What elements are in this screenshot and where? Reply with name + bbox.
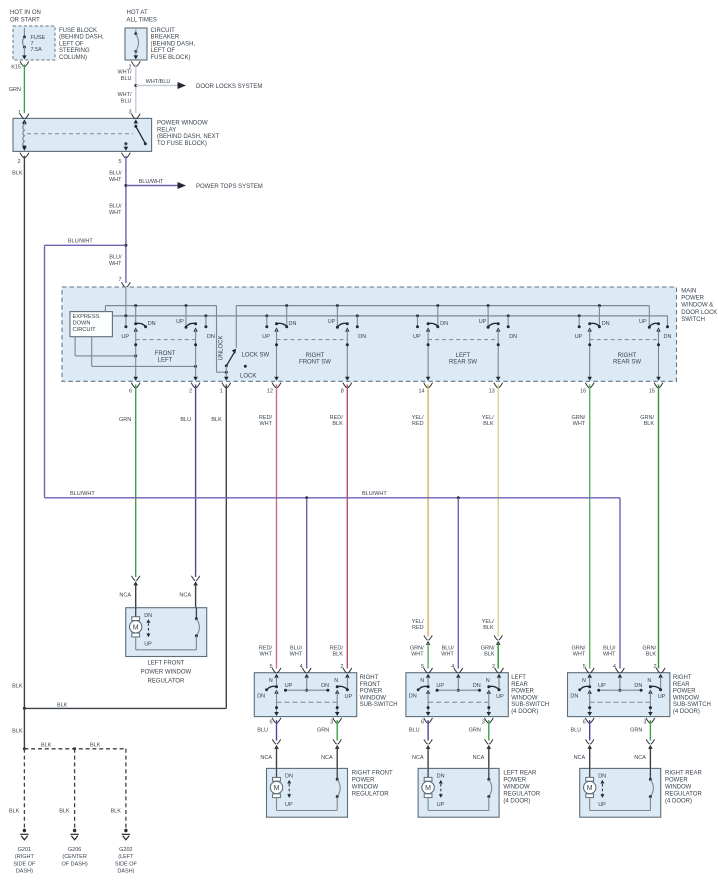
svg-text:5: 5 (421, 664, 424, 670)
svg-text:14: 14 (418, 389, 424, 395)
svg-text:3: 3 (128, 110, 131, 116)
svg-text:4: 4 (613, 664, 616, 670)
svg-text:BLU/: BLU/ (290, 645, 303, 651)
svg-text:DOOR LOCKS SYSTEM: DOOR LOCKS SYSTEM (196, 84, 262, 90)
svg-text:BLK: BLK (90, 742, 101, 748)
svg-text:DN: DN (358, 334, 366, 340)
svg-text:K15: K15 (11, 65, 21, 71)
svg-text:UP: UP (658, 694, 666, 700)
svg-text:ALL TIMES: ALL TIMES (127, 18, 157, 24)
svg-text:GRN: GRN (9, 87, 21, 93)
svg-text:1: 1 (220, 389, 223, 395)
svg-text:DN: DN (144, 613, 152, 619)
svg-text:DN: DN (664, 334, 672, 340)
svg-text:5: 5 (269, 664, 272, 670)
svg-text:NCA: NCA (119, 593, 131, 599)
svg-text:POWER: POWER (681, 296, 704, 302)
svg-text:BLU: BLU (180, 417, 191, 423)
svg-text:NCA: NCA (179, 593, 191, 599)
svg-text:SUB-SWITCH: SUB-SWITCH (673, 702, 711, 708)
svg-text:3: 3 (482, 719, 485, 725)
svg-text:REGULATOR: REGULATOR (665, 792, 702, 798)
svg-text:6: 6 (421, 719, 424, 725)
svg-text:WHT: WHT (441, 652, 454, 658)
svg-text:UP: UP (437, 802, 445, 808)
svg-text:NCA: NCA (321, 755, 333, 761)
svg-text:WINDOW: WINDOW (360, 695, 387, 701)
svg-text:BLU: BLU (409, 728, 420, 734)
svg-text:NCA: NCA (634, 755, 646, 761)
svg-text:2: 2 (189, 389, 192, 395)
svg-text:RED/: RED/ (330, 415, 344, 421)
svg-text:POWER TOPS SYSTEM: POWER TOPS SYSTEM (196, 184, 263, 190)
svg-text:RIGHT: RIGHT (306, 353, 325, 359)
svg-text:WINDOW: WINDOW (352, 785, 379, 791)
svg-text:GRN: GRN (119, 417, 131, 423)
svg-text:EXPRESS: EXPRESS (73, 314, 100, 320)
svg-text:OF DASH): OF DASH) (61, 861, 87, 867)
svg-text:6: 6 (583, 719, 586, 725)
svg-text:SIDE OF: SIDE OF (13, 861, 36, 867)
svg-text:DN: DN (570, 694, 578, 700)
svg-text:WHT/BLU: WHT/BLU (146, 79, 171, 85)
svg-text:GRN/: GRN/ (410, 645, 424, 651)
svg-text:UNLOCK: UNLOCK (219, 335, 225, 360)
svg-text:RIGHT REAR: RIGHT REAR (665, 771, 703, 777)
svg-text:WINDOW &: WINDOW & (681, 303, 713, 309)
svg-text:N: N (334, 678, 338, 684)
svg-text:BLU/: BLU/ (109, 171, 122, 177)
svg-text:G201: G201 (18, 847, 31, 853)
svg-text:DN: DN (148, 321, 156, 327)
svg-text:5: 5 (583, 664, 586, 670)
svg-text:POWER WINDOW: POWER WINDOW (157, 121, 208, 127)
svg-text:BLU/WHT: BLU/WHT (139, 179, 164, 185)
svg-text:N: N (269, 678, 273, 684)
svg-text:(LEFT: (LEFT (118, 854, 134, 860)
svg-text:BREAKER: BREAKER (151, 35, 180, 41)
svg-text:UP: UP (328, 319, 336, 325)
svg-text:2: 2 (654, 664, 657, 670)
svg-text:WINDOW: WINDOW (511, 695, 538, 701)
svg-text:(BEHIND DASH,: (BEHIND DASH, (59, 35, 104, 41)
svg-text:WINDOW: WINDOW (503, 785, 530, 791)
svg-text:REGULATOR: REGULATOR (148, 679, 185, 685)
svg-text:(4 DOOR): (4 DOOR) (511, 709, 538, 715)
svg-text:YEL/: YEL/ (482, 619, 494, 625)
svg-text:NCA: NCA (473, 755, 485, 761)
svg-text:BLU: BLU (121, 76, 132, 82)
svg-text:16: 16 (580, 389, 586, 395)
svg-text:DN: DN (598, 774, 606, 780)
svg-text:BLU/WHT: BLU/WHT (362, 491, 387, 497)
svg-text:BLK: BLK (483, 625, 494, 631)
svg-text:BLU/WHT: BLU/WHT (70, 491, 95, 497)
svg-text:2: 2 (17, 159, 20, 165)
svg-text:HOT IN ON: HOT IN ON (10, 10, 41, 16)
svg-text:4: 4 (451, 664, 454, 670)
svg-text:TO FUSE BLOCK): TO FUSE BLOCK) (157, 141, 207, 147)
svg-text:RIGHT: RIGHT (618, 353, 637, 359)
svg-text:GRN/: GRN/ (640, 415, 654, 421)
svg-text:GRN/: GRN/ (571, 415, 585, 421)
svg-text:(BEHIND DASH, NEXT: (BEHIND DASH, NEXT (157, 134, 220, 140)
svg-text:POWER: POWER (360, 689, 383, 695)
svg-text:4: 4 (300, 664, 303, 670)
svg-text:RED: RED (412, 421, 424, 427)
svg-text:6: 6 (269, 719, 272, 725)
svg-text:DASH): DASH) (16, 869, 33, 875)
svg-text:6: 6 (129, 389, 132, 395)
svg-text:HOT AT: HOT AT (127, 10, 148, 16)
svg-text:POWER: POWER (352, 778, 375, 784)
svg-text:UP: UP (496, 694, 504, 700)
svg-text:DN: DN (634, 683, 642, 689)
svg-text:WHT/: WHT/ (117, 70, 132, 76)
svg-text:(BEHIND DASH,: (BEHIND DASH, (151, 41, 196, 47)
svg-text:RIGHT: RIGHT (673, 675, 692, 681)
svg-text:BLK: BLK (484, 652, 495, 658)
svg-text:WHT: WHT (109, 210, 122, 216)
svg-text:BLK: BLK (332, 652, 343, 658)
svg-text:BLU/: BLU/ (109, 204, 122, 210)
svg-text:STEERING: STEERING (59, 48, 90, 54)
svg-text:DOWN: DOWN (73, 321, 91, 327)
svg-text:RIGHT: RIGHT (360, 675, 379, 681)
svg-text:WHT: WHT (290, 652, 303, 658)
svg-text:15: 15 (649, 389, 655, 395)
svg-text:NCA: NCA (412, 755, 424, 761)
svg-text:UP: UP (598, 683, 606, 689)
svg-text:GRN: GRN (469, 728, 481, 734)
svg-text:UP: UP (345, 694, 353, 700)
svg-text:2: 2 (340, 664, 343, 670)
svg-text:GRN/: GRN/ (481, 645, 495, 651)
svg-text:WINDOW: WINDOW (673, 695, 700, 701)
svg-text:GRN: GRN (317, 728, 329, 734)
svg-text:REAR: REAR (673, 682, 690, 688)
svg-text:G206: G206 (68, 847, 81, 853)
svg-text:REGULATOR: REGULATOR (503, 792, 540, 798)
svg-text:UP: UP (144, 642, 152, 648)
svg-text:3: 3 (643, 719, 646, 725)
svg-text:BLK: BLK (57, 702, 68, 708)
svg-text:POWER: POWER (665, 778, 688, 784)
svg-text:SUB-SWITCH: SUB-SWITCH (360, 702, 398, 708)
svg-text:LEFT: LEFT (158, 357, 173, 363)
svg-text:(RIGHT: (RIGHT (15, 854, 35, 860)
svg-text:DN: DN (473, 683, 481, 689)
svg-text:MAIN: MAIN (681, 289, 696, 295)
svg-text:GRN: GRN (630, 728, 642, 734)
svg-text:RED/: RED/ (330, 645, 344, 651)
svg-text:BLU: BLU (121, 98, 132, 104)
svg-text:DN: DN (289, 321, 297, 327)
svg-text:WHT: WHT (603, 652, 616, 658)
svg-text:DN: DN (285, 774, 293, 780)
svg-text:BLK: BLK (211, 417, 222, 423)
svg-text:(4 DOOR): (4 DOOR) (665, 799, 692, 805)
svg-text:12: 12 (267, 389, 273, 395)
svg-text:DN: DN (509, 334, 517, 340)
svg-text:N: N (647, 678, 651, 684)
svg-text:POWER: POWER (511, 689, 534, 695)
svg-text:(CENTER: (CENTER (62, 854, 86, 860)
svg-text:WHT: WHT (573, 652, 586, 658)
svg-text:UP: UP (262, 334, 270, 340)
svg-text:BLK: BLK (9, 809, 20, 815)
svg-text:CIRCUIT: CIRCUIT (151, 28, 176, 34)
svg-text:LEFT FRONT: LEFT FRONT (147, 661, 184, 667)
svg-text:DASH): DASH) (117, 869, 134, 875)
svg-text:BLK: BLK (41, 742, 52, 748)
svg-text:UP: UP (176, 319, 184, 325)
svg-text:UP: UP (413, 334, 421, 340)
svg-text:RELAY: RELAY (157, 127, 176, 133)
svg-text:UP: UP (575, 334, 583, 340)
svg-text:FUSE BLOCK: FUSE BLOCK (59, 28, 97, 34)
svg-text:N: N (582, 678, 586, 684)
svg-text:BLK: BLK (644, 421, 655, 427)
svg-text:2: 2 (492, 664, 495, 670)
svg-text:LOCK SW: LOCK SW (242, 353, 270, 359)
svg-text:UP: UP (285, 683, 293, 689)
svg-text:N: N (486, 678, 490, 684)
svg-text:BLU/: BLU/ (603, 645, 616, 651)
svg-text:YEL/: YEL/ (482, 415, 494, 421)
svg-text:SIDE OF: SIDE OF (115, 861, 138, 867)
svg-text:POWER: POWER (673, 689, 696, 695)
svg-text:UP: UP (598, 802, 606, 808)
svg-text:DN: DN (207, 334, 215, 340)
svg-text:3: 3 (330, 719, 333, 725)
svg-text:LOCK: LOCK (240, 374, 256, 380)
svg-text:M: M (587, 785, 593, 792)
svg-text:DN: DN (440, 321, 448, 327)
svg-text:SUB-SWITCH: SUB-SWITCH (511, 702, 549, 708)
svg-text:BLK: BLK (110, 809, 121, 815)
svg-text:NCA: NCA (574, 755, 586, 761)
svg-text:FRONT: FRONT (360, 682, 381, 688)
svg-text:RIGHT FRONT: RIGHT FRONT (352, 771, 393, 777)
svg-text:13: 13 (489, 389, 495, 395)
svg-text:UP: UP (285, 802, 293, 808)
svg-text:RED/: RED/ (259, 645, 273, 651)
svg-text:WHT/: WHT/ (117, 92, 132, 98)
svg-text:WHT: WHT (109, 177, 122, 183)
svg-text:BLU/WHT: BLU/WHT (68, 239, 93, 245)
svg-text:7.5A: 7.5A (31, 47, 43, 53)
svg-text:DN: DN (437, 774, 445, 780)
svg-text:FRONT SW: FRONT SW (299, 359, 331, 365)
svg-text:REGULATOR: REGULATOR (352, 792, 389, 798)
svg-text:DN: DN (602, 321, 610, 327)
svg-text:(4 DOOR): (4 DOOR) (503, 799, 530, 805)
svg-text:POWER WINDOW: POWER WINDOW (141, 670, 192, 676)
svg-text:FUSE BLOCK): FUSE BLOCK) (151, 55, 191, 61)
svg-text:8: 8 (341, 389, 344, 395)
svg-text:M: M (133, 624, 139, 631)
svg-text:REAR SW: REAR SW (449, 359, 477, 365)
svg-text:BLU: BLU (257, 728, 268, 734)
svg-text:FRONT: FRONT (155, 351, 176, 357)
svg-text:WINDOW: WINDOW (665, 785, 692, 791)
svg-text:YEL/: YEL/ (412, 619, 424, 625)
svg-text:YEL/: YEL/ (412, 415, 424, 421)
svg-text:WHT: WHT (109, 261, 122, 267)
svg-text:LEFT OF: LEFT OF (151, 48, 176, 54)
svg-text:CIRCUIT: CIRCUIT (73, 327, 97, 333)
svg-text:BLU: BLU (570, 728, 581, 734)
svg-text:WHT: WHT (411, 652, 424, 658)
svg-text:BLK: BLK (12, 171, 23, 177)
svg-text:DN: DN (321, 683, 329, 689)
svg-text:LEFT OF: LEFT OF (59, 41, 84, 47)
svg-text:SWITCH: SWITCH (681, 317, 705, 323)
svg-text:GRN/: GRN/ (571, 645, 585, 651)
svg-text:N: N (420, 678, 424, 684)
svg-text:DN: DN (409, 694, 417, 700)
svg-text:DN: DN (257, 694, 265, 700)
svg-text:POWER: POWER (503, 778, 526, 784)
svg-text:LEFT: LEFT (456, 353, 471, 359)
svg-text:WHT: WHT (259, 652, 272, 658)
svg-text:BLK: BLK (332, 421, 343, 427)
svg-text:G202: G202 (119, 847, 132, 853)
svg-text:BLU/: BLU/ (442, 645, 455, 651)
svg-text:UP: UP (436, 683, 444, 689)
svg-text:LEFT REAR: LEFT REAR (503, 771, 537, 777)
svg-text:COLUMN): COLUMN) (59, 55, 87, 61)
svg-text:WHT: WHT (259, 421, 272, 427)
svg-text:7: 7 (118, 277, 121, 283)
svg-text:GRN/: GRN/ (642, 645, 656, 651)
svg-text:(4 DOOR): (4 DOOR) (673, 709, 700, 715)
svg-text:BLK: BLK (483, 421, 494, 427)
svg-text:NCA: NCA (260, 755, 272, 761)
svg-text:5: 5 (118, 159, 121, 165)
svg-text:BLK: BLK (12, 684, 23, 690)
svg-text:OR START: OR START (10, 18, 40, 24)
svg-text:WHT: WHT (573, 421, 586, 427)
svg-text:REAR SW: REAR SW (613, 359, 641, 365)
svg-text:LEFT: LEFT (511, 675, 526, 681)
svg-text:RED: RED (412, 625, 424, 631)
svg-text:BLU/: BLU/ (109, 255, 122, 261)
svg-text:REAR: REAR (511, 682, 528, 688)
svg-text:BLK: BLK (59, 809, 70, 815)
svg-text:UP: UP (479, 319, 487, 325)
svg-text:BLK: BLK (646, 652, 657, 658)
svg-text:DOOR LOCK: DOOR LOCK (681, 310, 717, 316)
svg-text:UP: UP (121, 334, 129, 340)
svg-text:RED/: RED/ (259, 415, 273, 421)
svg-text:UP: UP (639, 319, 647, 325)
svg-text:M: M (274, 785, 280, 792)
svg-text:BLK: BLK (12, 729, 23, 735)
svg-text:M: M (425, 785, 431, 792)
